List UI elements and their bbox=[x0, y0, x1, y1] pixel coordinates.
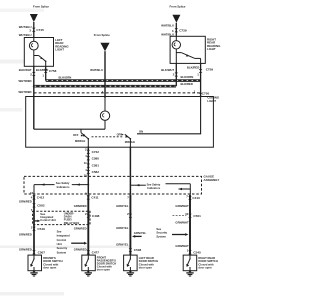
wire right light pin1 down to ceiling light bbox=[200, 63, 202, 96]
ground front passenger door switch bbox=[87, 271, 89, 273]
ground left rear door switch bbox=[129, 271, 131, 273]
wire see safety indicators left branch bbox=[34, 184, 55, 186]
svg-text:See: See bbox=[57, 229, 62, 233]
svg-text:C582: C582 bbox=[37, 204, 45, 208]
gauge assembly box dashed bbox=[24, 176, 202, 194]
connector C750 bbox=[199, 93, 202, 97]
svg-text:C742: C742 bbox=[92, 150, 100, 154]
bulb left reading light bbox=[33, 38, 35, 42]
bulb right reading light bbox=[175, 36, 177, 40]
svg-text:C581: C581 bbox=[92, 164, 100, 168]
scan noise band left mid1 bbox=[0, 60, 24, 64]
svg-text:RELAY BOX: RELAY BOX bbox=[64, 221, 80, 225]
svg-text:Control Unit: Control Unit bbox=[40, 218, 56, 222]
svg-text:BLK/RED: BLK/RED bbox=[181, 82, 193, 86]
svg-text:From Splice: From Splice bbox=[33, 4, 49, 8]
splice C symbol bbox=[172, 15, 180, 23]
connector C580 bbox=[87, 156, 90, 160]
switch pole 1 blade bbox=[81, 133, 88, 139]
svg-text:LIGHT: LIGHT bbox=[207, 47, 216, 51]
svg-text:GRN/RED: GRN/RED bbox=[74, 204, 87, 208]
svg-text:1: 1 bbox=[197, 73, 199, 77]
svg-text:C549: C549 bbox=[37, 227, 45, 231]
svg-text:10: 10 bbox=[185, 212, 189, 216]
svg-text:System: System bbox=[156, 234, 166, 238]
svg-text:GRN/WHT: GRN/WHT bbox=[175, 204, 189, 208]
svg-text:LIGHT: LIGHT bbox=[207, 99, 216, 103]
wire left rear column below gauge bbox=[129, 195, 131, 255]
svg-text:See: See bbox=[156, 227, 161, 231]
svg-text:From Splice: From Splice bbox=[94, 33, 110, 37]
arrow to security system (right rear wire) bbox=[172, 234, 185, 236]
splice D symbol bbox=[100, 43, 109, 52]
svg-text:Indicators: Indicators bbox=[57, 185, 70, 189]
svg-text:2: 2 bbox=[173, 72, 175, 76]
svg-text:WHT/BLU: WHT/BLU bbox=[161, 24, 174, 28]
switch front passenger door bbox=[87, 255, 89, 259]
svg-text:BLK/RED: BLK/RED bbox=[36, 68, 48, 72]
connector C742 bbox=[87, 150, 90, 154]
junction dot bus B bbox=[33, 85, 35, 87]
switch driver door bbox=[33, 255, 35, 259]
svg-text:System: System bbox=[57, 250, 67, 254]
svg-text:2: 2 bbox=[127, 212, 129, 216]
svg-text:Control: Control bbox=[57, 238, 67, 242]
wire splice C to right reading light bbox=[175, 23, 177, 37]
front passenger's door switch box bbox=[82, 255, 96, 271]
svg-text:GRN/RED: GRN/RED bbox=[74, 226, 87, 230]
wire ceiling switch pole2 down to gauge bbox=[129, 147, 131, 177]
svg-text:GRN/RED: GRN/RED bbox=[19, 233, 32, 237]
svg-text:Security: Security bbox=[156, 231, 167, 235]
wire right light pin2 to bus A bbox=[175, 63, 177, 86]
scan noise band lower bbox=[0, 246, 130, 249]
svg-text:C477: C477 bbox=[92, 250, 100, 254]
switch right reading light bbox=[176, 52, 181, 54]
switch right rear door bbox=[189, 255, 191, 259]
wire ceiling switch pole1 down to gauge bbox=[87, 147, 89, 177]
svg-text:door open: door open bbox=[43, 266, 56, 270]
svg-text:See Safety: See Safety bbox=[56, 181, 70, 185]
wire center through gauge bbox=[87, 177, 89, 195]
wire pole2 through gauge bbox=[129, 177, 131, 195]
connector C759 bbox=[199, 69, 202, 73]
scan noise band top left bbox=[0, 9, 44, 13]
svg-text:2: 2 bbox=[85, 148, 87, 152]
svg-text:1: 1 bbox=[85, 154, 87, 158]
connector C507 bbox=[32, 250, 35, 254]
switch pole 2 blade bbox=[125, 134, 131, 139]
bus B WHT/RED bbox=[34, 85, 176, 88]
svg-text:GRN/YEL: GRN/YEL bbox=[134, 231, 147, 235]
connector C582 (driver wire) bbox=[32, 203, 35, 207]
svg-text:C498: C498 bbox=[92, 214, 100, 218]
connector C410 bbox=[188, 196, 191, 200]
svg-text:LIGHT: LIGHT bbox=[55, 48, 64, 52]
svg-text:BLK/RED: BLK/RED bbox=[187, 66, 199, 70]
svg-text:WHT/BLU: WHT/BLU bbox=[90, 68, 103, 72]
svg-text:C412: C412 bbox=[37, 196, 45, 200]
svg-text:1: 1 bbox=[31, 225, 33, 229]
wire internal left (pin2 feed) bbox=[34, 128, 105, 130]
connector C411 bbox=[87, 196, 90, 200]
wire splice A to left reading light bbox=[33, 22, 35, 38]
svg-text:From Splice: From Splice bbox=[169, 4, 185, 8]
svg-text:C745: C745 bbox=[36, 28, 44, 32]
svg-text:GRN/RED: GRN/RED bbox=[19, 199, 32, 203]
svg-text:BLK/WHT: BLK/WHT bbox=[161, 68, 174, 72]
wire see safety indicators right branch bbox=[130, 184, 145, 186]
svg-text:GRN/RED: GRN/RED bbox=[74, 247, 87, 251]
splice A symbol bbox=[30, 14, 38, 22]
wire pole 1 down bbox=[87, 139, 89, 147]
svg-text:door open: door open bbox=[139, 266, 152, 270]
wire splice D to ceiling light pin 4 bbox=[104, 51, 106, 96]
svg-text:2: 2 bbox=[85, 212, 87, 216]
svg-text:C508: C508 bbox=[134, 248, 142, 252]
gang link dashed bbox=[92, 136, 124, 138]
switch left reading light bbox=[34, 55, 39, 57]
svg-text:9: 9 bbox=[85, 191, 87, 195]
wire left light pin1 to bus A bbox=[45, 66, 47, 80]
connector C582 bbox=[87, 170, 90, 174]
svg-text:Integrated: Integrated bbox=[57, 234, 70, 238]
svg-text:2: 2 bbox=[30, 73, 32, 77]
connector C477 bbox=[87, 250, 90, 254]
svg-text:See Safety: See Safety bbox=[147, 182, 161, 186]
right rear door switch box bbox=[183, 255, 197, 271]
svg-text:C410: C410 bbox=[192, 196, 200, 200]
svg-text:C411: C411 bbox=[91, 196, 99, 200]
bus C dashed WHT/RED bbox=[34, 92, 201, 94]
svg-text:Indicators: Indicators bbox=[147, 186, 160, 190]
svg-text:BLK/ORN: BLK/ORN bbox=[59, 76, 72, 80]
wire gauge left leg bbox=[33, 185, 35, 195]
junction dot ceiling light pin 4 bbox=[104, 96, 106, 98]
svg-text:C545: C545 bbox=[193, 251, 201, 255]
driver's door switch box bbox=[28, 255, 42, 271]
svg-text:10: 10 bbox=[30, 191, 34, 195]
svg-text:MIDDLE: MIDDLE bbox=[75, 139, 86, 143]
svg-text:C561: C561 bbox=[193, 214, 201, 218]
left rear door switch box bbox=[124, 255, 138, 271]
connector C739 bbox=[175, 28, 178, 32]
connector on right pin2 wire bbox=[175, 73, 178, 77]
svg-text:11: 11 bbox=[84, 161, 87, 165]
svg-text:GRN/YEL: GRN/YEL bbox=[116, 243, 129, 247]
wire left pin2 down into ceiling light bbox=[33, 66, 35, 129]
svg-text:ON: ON bbox=[139, 130, 143, 134]
svg-text:BLK/ORN: BLK/ORN bbox=[181, 75, 194, 79]
svg-text:C739: C739 bbox=[179, 28, 187, 32]
scan noise band bottom bbox=[0, 292, 64, 296]
svg-text:C758: C758 bbox=[49, 69, 57, 73]
connector C561 bbox=[173, 215, 187, 217]
svg-text:GRN/RED: GRN/RED bbox=[19, 247, 32, 251]
svg-text:4: 4 bbox=[102, 90, 104, 94]
switch left rear door bbox=[129, 255, 131, 259]
svg-text:C759: C759 bbox=[206, 68, 214, 72]
svg-text:7: 7 bbox=[127, 196, 129, 200]
svg-text:C507: C507 bbox=[38, 250, 46, 254]
svg-text:1: 1 bbox=[42, 73, 44, 77]
ceiling light box bbox=[26, 97, 214, 148]
svg-text:Unit: Unit bbox=[57, 242, 62, 246]
wire pole 2 down bbox=[129, 139, 131, 147]
wire gauge right leg bbox=[189, 184, 191, 195]
svg-text:WHT/BLU: WHT/BLU bbox=[19, 33, 32, 37]
connector C745 bbox=[32, 28, 35, 32]
connector C758 bbox=[44, 69, 47, 73]
wire front passenger column below gauge bbox=[87, 195, 89, 255]
arrow to integrated control unit bbox=[34, 220, 38, 222]
svg-text:C582: C582 bbox=[92, 170, 100, 174]
wire internal right (C750 to ON contact) bbox=[137, 97, 201, 134]
svg-text:GRN/WHT: GRN/WHT bbox=[175, 220, 189, 224]
svg-text:GRN/YEL: GRN/YEL bbox=[116, 204, 129, 208]
svg-text:OFF: OFF bbox=[73, 133, 79, 137]
svg-text:GRN/YEL: GRN/YEL bbox=[116, 226, 129, 230]
switch pole 1 contact bbox=[80, 129, 82, 132]
ground right rear door switch bbox=[189, 271, 191, 273]
connector C412 bbox=[32, 196, 35, 200]
arrow to security system (passenger wire) bbox=[71, 242, 84, 244]
junction dot bus A / right light pin2 bbox=[175, 80, 177, 82]
ground driver door switch bbox=[33, 271, 35, 273]
connector C581 bbox=[87, 164, 90, 168]
right rear reading light box bbox=[170, 36, 205, 63]
svg-text:ASSEMBLY: ASSEMBLY bbox=[204, 178, 220, 182]
svg-text:7: 7 bbox=[186, 194, 188, 198]
svg-text:door open: door open bbox=[198, 266, 211, 270]
svg-text:door open: door open bbox=[97, 268, 110, 272]
svg-text:C580: C580 bbox=[92, 156, 100, 160]
under-dash fuse/relay box dashed bbox=[33, 211, 90, 224]
bus A BLK/ORN bbox=[46, 79, 201, 82]
svg-text:1: 1 bbox=[194, 89, 196, 93]
svg-text:BLK/WHT: BLK/WHT bbox=[19, 68, 32, 72]
svg-text:Security: Security bbox=[57, 246, 68, 250]
svg-text:WHT/RED: WHT/RED bbox=[19, 79, 32, 83]
bulb ceiling light bbox=[104, 97, 106, 112]
connector C508 bbox=[129, 248, 132, 252]
left rear reading light box bbox=[24, 38, 53, 67]
wire driver door column below gauge bbox=[33, 195, 35, 255]
arrow from security system (left rear wire) bbox=[135, 235, 142, 237]
svg-text:WHT/RED: WHT/RED bbox=[19, 90, 32, 94]
svg-text:D: D bbox=[103, 45, 106, 50]
wire right rear column below gauge bbox=[189, 195, 191, 255]
connector on left pin2 wire bbox=[32, 72, 35, 76]
scan noise band left mid2 bbox=[0, 108, 22, 112]
